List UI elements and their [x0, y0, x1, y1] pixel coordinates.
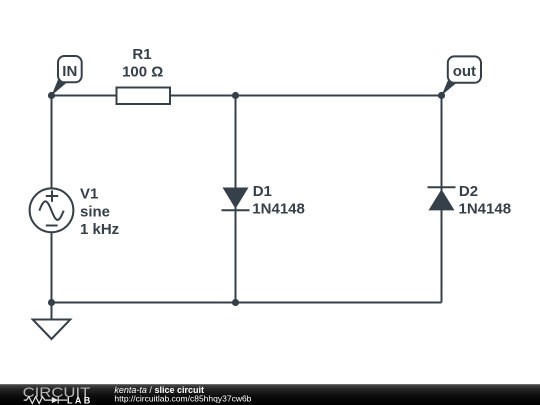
- svg-text:LAB: LAB: [67, 396, 93, 405]
- svg-text:1N4148: 1N4148: [459, 201, 512, 218]
- svg-text:sine: sine: [80, 203, 110, 220]
- svg-text:out: out: [453, 63, 476, 80]
- svg-text:1 kHz: 1 kHz: [80, 221, 119, 238]
- svg-text:IN: IN: [62, 63, 77, 80]
- svg-text:1N4148: 1N4148: [252, 201, 305, 218]
- svg-text:100 Ω: 100 Ω: [122, 63, 163, 80]
- svg-text:D2: D2: [459, 183, 478, 200]
- svg-text:V1: V1: [80, 186, 98, 203]
- svg-text:R1: R1: [132, 46, 151, 63]
- svg-text:http://circuitlab.com/c85hhqy3: http://circuitlab.com/c85hhqy37cw6b: [114, 393, 251, 403]
- svg-text:D1: D1: [253, 183, 272, 200]
